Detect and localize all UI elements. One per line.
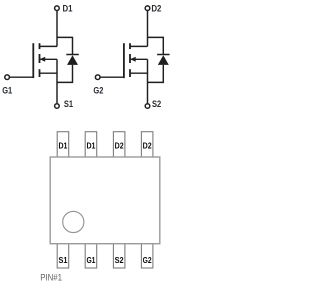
svg-text:S1: S1 (58, 255, 67, 265)
wire Q2 drain lead from D2 (147, 11, 149, 47)
wire Q1 drain stub (40, 45, 58, 47)
pin 2 lead (G1, package bottom row 2) (85, 243, 97, 269)
transistor Q1 (N-channel MOSFET, left): gate bar and channel segments (33, 43, 39, 78)
terminal S2 (145, 104, 150, 109)
transistor Q2 (N-channel MOSFET, right): gate bar and channel segments (124, 43, 130, 78)
wire Q2 drain stub (130, 45, 148, 47)
pin 6 lead (D2, package top row 3) (113, 132, 125, 159)
terminal D2 (145, 6, 150, 11)
pin 4 lead (G2, package bottom row 4) (141, 243, 153, 269)
wire Q1 source lead down to S1 (56, 59, 58, 103)
svg-text:PIN#1: PIN#1 (40, 272, 62, 283)
pin 1 indicator dot (63, 211, 84, 232)
wire Q1 body stub with arrowhead (40, 57, 57, 62)
diode Q1 body diode (57, 37, 79, 82)
svg-text:S1: S1 (64, 99, 73, 109)
pin 3 lead (S2, package bottom row 3) (113, 243, 125, 269)
svg-text:G2: G2 (93, 86, 103, 96)
svg-text:S2: S2 (115, 255, 124, 265)
svg-text:D1: D1 (86, 140, 95, 150)
pin 5 lead (D2, package top row 4) (141, 132, 153, 159)
svg-text:G2: G2 (143, 255, 152, 265)
svg-text:D2: D2 (151, 4, 161, 14)
pin 7 lead (D1, package top row 2) (85, 132, 97, 159)
diode Q2 body diode (148, 37, 170, 82)
svg-text:G1: G1 (2, 86, 12, 96)
terminal S1 (55, 104, 60, 109)
IC package body U1 (SO-8 outline) (50, 157, 160, 244)
pin 8 lead (D1, package top row 1) (57, 132, 68, 159)
wire Q2 source stub (131, 72, 148, 74)
terminal D1 (55, 6, 60, 11)
svg-text:S2: S2 (152, 99, 161, 109)
wire Q1 gate lead from G1 (10, 76, 34, 78)
svg-text:D1: D1 (58, 140, 67, 150)
terminal G2 (95, 75, 100, 80)
terminal G1 (5, 75, 10, 80)
wire Q2 source lead down to S2 (147, 59, 149, 103)
svg-text:G1: G1 (86, 255, 95, 265)
svg-text:D2: D2 (115, 140, 124, 150)
wire Q2 gate lead from G2 (100, 76, 124, 78)
wire Q2 body stub with arrowhead (130, 57, 147, 62)
svg-text:D1: D1 (63, 4, 73, 14)
wire Q1 source stub (40, 72, 57, 74)
wire Q1 drain lead from D1 (56, 11, 58, 47)
pin 1 lead (S1, package bottom row 1) (57, 243, 68, 269)
svg-text:D2: D2 (143, 140, 152, 150)
